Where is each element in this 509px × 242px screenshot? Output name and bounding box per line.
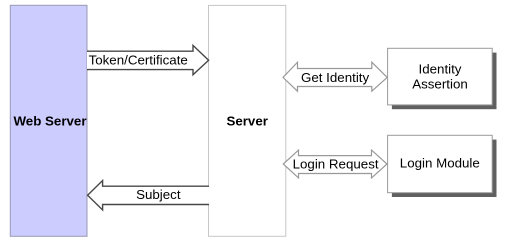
svg-text:Login Module: Login Module bbox=[400, 156, 480, 171]
svg-text:Subject: Subject bbox=[136, 187, 181, 202]
arrow Subject (Server to Web Server) bbox=[88, 181, 209, 211]
box Web Server bbox=[10, 5, 87, 236]
box Server bbox=[209, 5, 286, 236]
svg-text:Server: Server bbox=[226, 114, 268, 129]
shadow of Identity Assertion box bbox=[392, 53, 497, 110]
box Login Module bbox=[388, 135, 493, 192]
svg-text:Login Request: Login Request bbox=[293, 156, 379, 171]
svg-text:Web Server: Web Server bbox=[13, 114, 86, 129]
svg-text:Get Identity: Get Identity bbox=[301, 70, 369, 85]
svg-text:Assertion: Assertion bbox=[412, 77, 468, 92]
double arrow Get Identity (Server and Identity Assertion) bbox=[283, 62, 387, 91]
svg-text:Token/Certificate: Token/Certificate bbox=[89, 52, 188, 67]
svg-text:Identity: Identity bbox=[419, 62, 462, 77]
double arrow Login Request (Server and Login Module) bbox=[283, 150, 387, 178]
arrow Token/Certificate (Web Server to Server) bbox=[87, 45, 209, 74]
box Identity Assertion bbox=[388, 48, 493, 105]
shadow of Login Module box bbox=[392, 140, 497, 197]
